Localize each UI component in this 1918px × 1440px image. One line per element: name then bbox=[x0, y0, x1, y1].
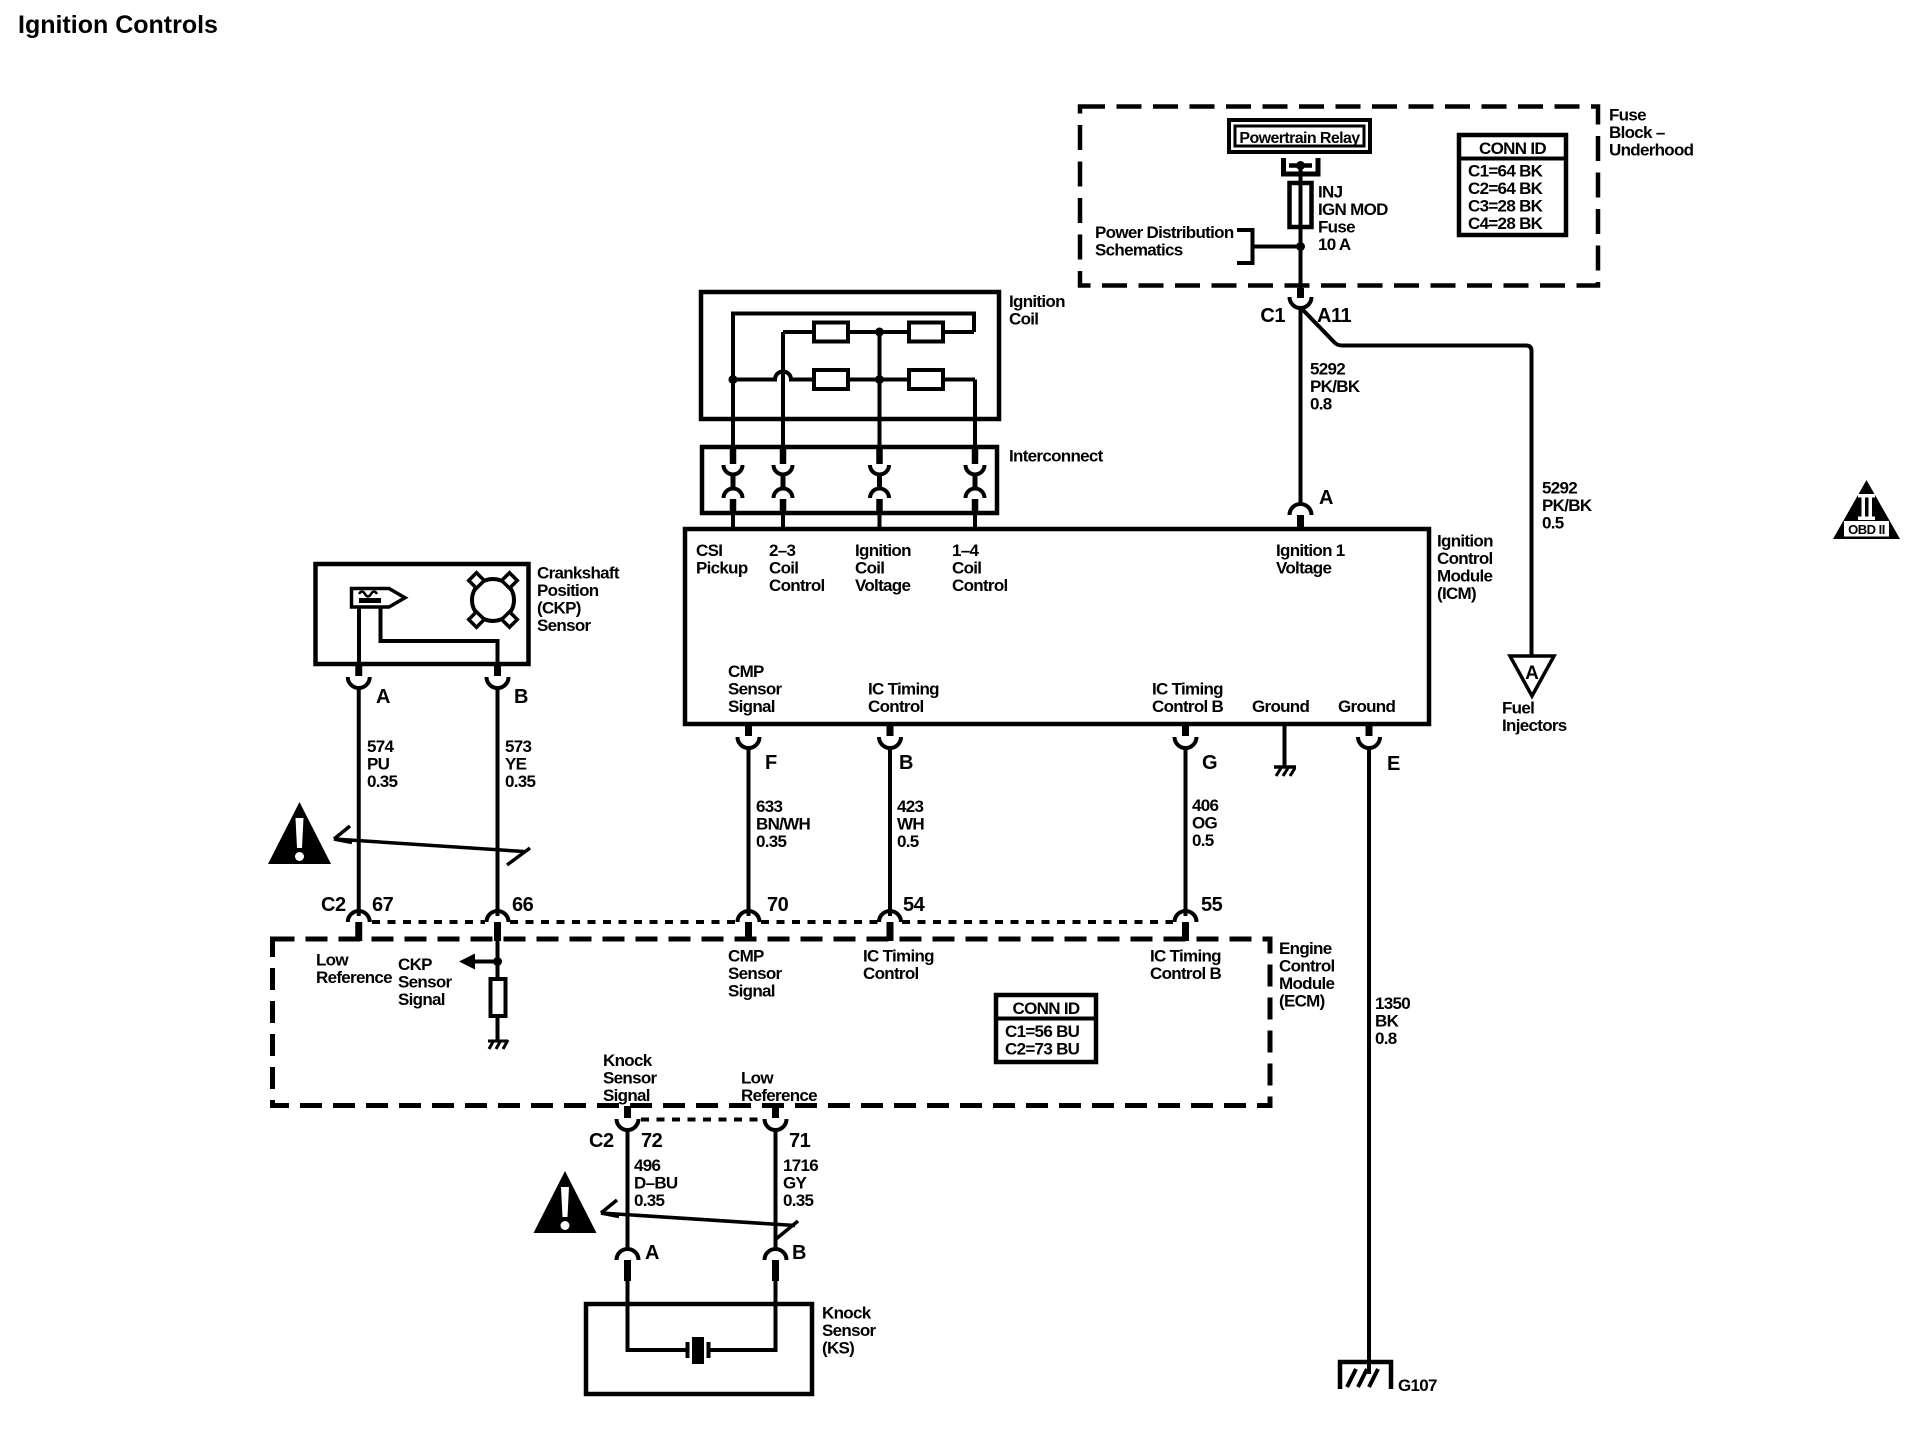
svg-text:2–3: 2–3 bbox=[769, 541, 796, 560]
svg-text:B: B bbox=[514, 686, 528, 708]
svg-text:(CKP): (CKP) bbox=[537, 599, 581, 618]
interconnect connector 2 bbox=[774, 447, 793, 513]
svg-text:IC Timing: IC Timing bbox=[1152, 680, 1223, 699]
label CMP Sensor Signal ECM bbox=[728, 947, 783, 1001]
svg-text:5292: 5292 bbox=[1542, 479, 1577, 498]
svg-text:A: A bbox=[376, 686, 390, 708]
wire B into knock sensor bbox=[711, 1281, 776, 1350]
connector 66 bbox=[487, 911, 509, 941]
label Crankshaft Position (CKP) Sensor bbox=[537, 564, 620, 636]
svg-text:0.35: 0.35 bbox=[783, 1191, 814, 1210]
label 573 YE 0.35 bbox=[505, 737, 536, 791]
svg-text:423: 423 bbox=[897, 797, 924, 816]
Powertrain Relay label box bbox=[1229, 120, 1370, 152]
connector 71 at ECM bottom bbox=[765, 1106, 787, 1130]
connector pin G at ICM bottom bbox=[1175, 724, 1197, 748]
svg-text:Knock: Knock bbox=[603, 1051, 653, 1070]
svg-text:0.35: 0.35 bbox=[505, 772, 536, 791]
coil resistor primary 2 bbox=[909, 323, 943, 342]
svg-text:IC Timing: IC Timing bbox=[868, 680, 939, 699]
ground G107 symbol bbox=[1340, 1362, 1391, 1389]
svg-text:Module: Module bbox=[1437, 567, 1493, 586]
ICM chassis ground symbol bbox=[1274, 767, 1296, 776]
svg-text:YE: YE bbox=[505, 755, 527, 774]
label 1350 BK 0.8 bbox=[1375, 994, 1410, 1048]
interconnect connector 4 bbox=[966, 447, 985, 513]
wire fuse down through box bbox=[1299, 227, 1303, 288]
pin labels CMP Sensor Signal bbox=[728, 662, 783, 716]
knock sensor box bbox=[586, 1304, 812, 1394]
svg-text:Voltage: Voltage bbox=[1276, 559, 1331, 578]
svg-text:633: 633 bbox=[756, 797, 783, 816]
fuse INJ IGN MOD 10A bbox=[1290, 183, 1312, 227]
wire 633 BN/WH F to 70 bbox=[747, 748, 751, 916]
svg-text:Ground: Ground bbox=[1252, 697, 1309, 716]
pin labels Ignition Coil Voltage bbox=[855, 541, 911, 595]
resistor ECM pullup bbox=[491, 979, 506, 1016]
twisted pair indicator 2 bbox=[601, 1200, 798, 1239]
svg-text:1–4: 1–4 bbox=[952, 541, 980, 560]
svg-text:(ICM): (ICM) bbox=[1437, 584, 1476, 603]
label 5292 PK/BK 0.8 bbox=[1310, 360, 1361, 414]
svg-text:Pickup: Pickup bbox=[696, 559, 748, 578]
svg-text:0.5: 0.5 bbox=[1542, 514, 1564, 533]
coil internal top bus wire bbox=[733, 314, 974, 448]
interconnect connector 3 bbox=[870, 447, 889, 513]
svg-text:CMP: CMP bbox=[728, 947, 764, 966]
svg-text:F: F bbox=[765, 752, 777, 774]
svg-text:(ECM): (ECM) bbox=[1279, 992, 1325, 1011]
label Low Reference ECM knock bbox=[741, 1069, 817, 1106]
wire relay to fuse bbox=[1299, 166, 1303, 184]
label Knock Sensor Signal ECM bbox=[603, 1051, 658, 1105]
svg-text:574: 574 bbox=[367, 737, 395, 756]
svg-text:Knock: Knock bbox=[822, 1304, 872, 1323]
wire 496 D-BU bbox=[626, 1130, 630, 1250]
svg-text:A11: A11 bbox=[1317, 305, 1351, 327]
relay K contact symbol bbox=[1284, 158, 1319, 174]
svg-text:54: 54 bbox=[903, 894, 926, 916]
svg-text:Sensor: Sensor bbox=[728, 680, 783, 699]
svg-text:C1=64 BK: C1=64 BK bbox=[1468, 162, 1544, 181]
svg-text:Sensor: Sensor bbox=[398, 973, 453, 992]
label Power Distribution Schematics bbox=[1095, 223, 1234, 260]
wire resistor to ground bbox=[496, 1016, 500, 1040]
svg-text:Injectors: Injectors bbox=[1502, 716, 1567, 735]
connector pin A knock bbox=[617, 1249, 639, 1281]
svg-text:573: 573 bbox=[505, 737, 532, 756]
coil wire drop 3 bbox=[878, 332, 882, 447]
svg-text:Ignition: Ignition bbox=[855, 541, 911, 560]
svg-text:Coil: Coil bbox=[769, 559, 798, 578]
connector 70 bbox=[738, 911, 760, 941]
svg-text:Control B: Control B bbox=[1150, 964, 1222, 983]
svg-text:Block –: Block – bbox=[1609, 123, 1665, 142]
svg-text:Fuse: Fuse bbox=[1609, 106, 1646, 125]
svg-text:Sensor: Sensor bbox=[728, 964, 783, 983]
interconnect box bbox=[702, 447, 997, 513]
connector 54 bbox=[879, 911, 901, 941]
dotted line between 72 and 71 bbox=[641, 1118, 762, 1122]
coil internal row1 wire bbox=[783, 330, 974, 334]
label Engine Control Module (ECM) bbox=[1279, 939, 1335, 1011]
svg-text:Ignition: Ignition bbox=[1437, 532, 1493, 551]
svg-text:PU: PU bbox=[367, 755, 390, 774]
label 574 PU 0.35 bbox=[367, 737, 398, 791]
label 423 WH 0.5 bbox=[897, 797, 924, 851]
fuel injectors triangle bbox=[1510, 656, 1554, 696]
svg-text:Interconnect: Interconnect bbox=[1009, 447, 1104, 466]
wires interconnect to ICM bbox=[733, 513, 975, 529]
fuse block underhood dashed box bbox=[1080, 107, 1598, 286]
wire bracket to node bbox=[1253, 245, 1301, 249]
svg-text:E: E bbox=[1387, 753, 1400, 775]
svg-text:A: A bbox=[1525, 663, 1539, 684]
coil wire drop 2 bbox=[781, 332, 785, 447]
svg-text:5292: 5292 bbox=[1310, 360, 1345, 379]
svg-text:Fuel: Fuel bbox=[1502, 699, 1534, 718]
connector 72 at ECM bottom bbox=[617, 1106, 639, 1130]
svg-text:IC Timing: IC Timing bbox=[1150, 947, 1221, 966]
piezo element symbol bbox=[688, 1337, 709, 1364]
svg-text:Control: Control bbox=[1279, 957, 1335, 976]
OBD II icon bbox=[1833, 480, 1900, 539]
connector row dotted line C2 bbox=[372, 920, 1173, 924]
svg-text:67: 67 bbox=[372, 894, 394, 916]
CONN ID table underhood bbox=[1459, 135, 1566, 235]
svg-text:0.5: 0.5 bbox=[897, 832, 919, 851]
svg-text:C2=64 BK: C2=64 BK bbox=[1468, 179, 1544, 198]
junction node CKP signal bbox=[493, 957, 502, 966]
connector 55 bbox=[1175, 911, 1197, 941]
svg-text:C1=56 BU: C1=56 BU bbox=[1005, 1022, 1080, 1041]
svg-text:Module: Module bbox=[1279, 974, 1335, 993]
svg-text:55: 55 bbox=[1201, 894, 1223, 916]
svg-text:C3=28 BK: C3=28 BK bbox=[1468, 197, 1544, 216]
svg-text:G: G bbox=[1202, 752, 1217, 774]
CKP reluctor wheel symbol bbox=[469, 573, 518, 628]
CONN ID table ECM bbox=[996, 995, 1096, 1062]
svg-text:0.35: 0.35 bbox=[367, 772, 398, 791]
svg-text:CMP: CMP bbox=[728, 662, 764, 681]
label Low Reference ECM bbox=[316, 951, 392, 988]
svg-text:Sensor: Sensor bbox=[603, 1069, 658, 1088]
wire 66 into ECM bbox=[496, 941, 500, 979]
connector pin B knock bbox=[765, 1249, 787, 1281]
pin label Ignition 1 Voltage bbox=[1276, 541, 1345, 578]
svg-text:Powertrain Relay: Powertrain Relay bbox=[1239, 130, 1360, 147]
svg-text:Reference: Reference bbox=[316, 968, 392, 987]
label Ignition Control Module (ICM) bbox=[1437, 532, 1493, 604]
svg-text:CONN ID: CONN ID bbox=[1013, 999, 1080, 1018]
label CKP Sensor Signal ECM bbox=[398, 955, 453, 1009]
svg-text:BN/WH: BN/WH bbox=[756, 815, 811, 834]
svg-text:Ground: Ground bbox=[1338, 697, 1395, 716]
svg-text:Control: Control bbox=[1437, 549, 1493, 568]
svg-text:C1: C1 bbox=[1260, 305, 1285, 327]
svg-text:A: A bbox=[1319, 487, 1333, 509]
interconnect connector 1 bbox=[724, 447, 743, 513]
svg-text:72: 72 bbox=[641, 1130, 663, 1152]
svg-text:WH: WH bbox=[897, 815, 924, 834]
svg-text:Underhood: Underhood bbox=[1609, 141, 1694, 160]
wire 1350 BK E to G107 bbox=[1367, 748, 1371, 1374]
svg-text:CSI: CSI bbox=[696, 541, 722, 560]
svg-text:66: 66 bbox=[512, 894, 534, 916]
svg-text:Ignition: Ignition bbox=[1009, 292, 1065, 311]
svg-text:Coil: Coil bbox=[855, 559, 884, 578]
svg-text:B: B bbox=[899, 752, 913, 774]
wire 406 OG G to 55 bbox=[1184, 748, 1188, 916]
svg-text:Coil: Coil bbox=[1009, 310, 1038, 329]
coil wire drop 4 bbox=[973, 380, 977, 448]
wire 423 WH B to 54 bbox=[888, 748, 892, 916]
svg-text:G107: G107 bbox=[1398, 1376, 1437, 1395]
ICM box Ignition Control Module bbox=[685, 529, 1429, 724]
svg-text:1716: 1716 bbox=[783, 1156, 818, 1175]
svg-text:OG: OG bbox=[1192, 814, 1218, 833]
ignition coil box bbox=[701, 292, 999, 419]
svg-text:70: 70 bbox=[767, 894, 789, 916]
label 5292 PK/BK 0.5 bbox=[1542, 479, 1593, 533]
label 496 D-BU 0.35 bbox=[634, 1156, 678, 1210]
svg-text:PK/BK: PK/BK bbox=[1542, 496, 1593, 515]
svg-text:Low: Low bbox=[316, 951, 349, 970]
pin labels 2-3 Coil Control bbox=[769, 541, 825, 595]
svg-text:Low: Low bbox=[741, 1069, 774, 1088]
svg-text:BK: BK bbox=[1375, 1012, 1400, 1031]
svg-text:Schematics: Schematics bbox=[1095, 241, 1183, 260]
label Knock Sensor (KS) bbox=[822, 1304, 877, 1358]
svg-text:Crankshaft: Crankshaft bbox=[537, 564, 620, 583]
label Fuse Block - Underhood bbox=[1609, 106, 1694, 160]
pin labels 1-4 Coil Control bbox=[952, 541, 1008, 595]
wire 574 PU bbox=[357, 688, 361, 916]
coil resistor primary 1 bbox=[814, 323, 848, 342]
label Fuel Injectors bbox=[1502, 699, 1567, 736]
ECM internal ground symbol bbox=[488, 1040, 508, 1049]
svg-text:Coil: Coil bbox=[952, 559, 981, 578]
svg-text:71: 71 bbox=[789, 1130, 811, 1152]
svg-text:Power Distribution: Power Distribution bbox=[1095, 223, 1234, 242]
ECM dashed box Engine Control Module bbox=[273, 939, 1271, 1106]
svg-text:GY: GY bbox=[783, 1174, 808, 1193]
svg-text:D–BU: D–BU bbox=[634, 1174, 678, 1193]
svg-text:496: 496 bbox=[634, 1156, 661, 1175]
svg-text:Engine: Engine bbox=[1279, 939, 1332, 958]
svg-text:0.35: 0.35 bbox=[634, 1191, 665, 1210]
wire 573 YE bbox=[496, 688, 500, 916]
svg-text:0.5: 0.5 bbox=[1192, 831, 1214, 850]
svg-text:Control: Control bbox=[863, 964, 919, 983]
CKP sensor box bbox=[316, 564, 529, 664]
coil resistor secondary 1 bbox=[814, 370, 848, 389]
node row2 mid bbox=[875, 375, 884, 384]
svg-text:(KS): (KS) bbox=[822, 1339, 854, 1358]
svg-text:IC Timing: IC Timing bbox=[863, 947, 934, 966]
svg-text:Fuse: Fuse bbox=[1318, 218, 1355, 237]
svg-text:C2: C2 bbox=[321, 894, 346, 916]
svg-text:C2=73 BU: C2=73 BU bbox=[1005, 1040, 1080, 1059]
svg-text:Position: Position bbox=[537, 581, 599, 600]
pin labels IC Timing Control B bbox=[1152, 680, 1224, 717]
svg-text:CONN ID: CONN ID bbox=[1479, 139, 1546, 158]
wire branch to fuel injectors bbox=[1303, 310, 1532, 656]
svg-text:C4=28 BK: C4=28 BK bbox=[1468, 214, 1544, 233]
ICM ground pin wire bbox=[1283, 724, 1287, 766]
connector pin E at ICM bottom bbox=[1358, 724, 1380, 748]
connector C1 pin A11 bbox=[1290, 288, 1312, 308]
wire A into knock sensor bbox=[628, 1281, 686, 1350]
svg-text:0.35: 0.35 bbox=[756, 832, 787, 851]
connector A at ICM top bbox=[1290, 504, 1312, 529]
svg-text:Ignition 1: Ignition 1 bbox=[1276, 541, 1345, 560]
node row2 left bbox=[729, 375, 738, 384]
label INJ IGN MOD Fuse 10 A bbox=[1318, 183, 1388, 255]
wire 5292 PK/BK 0.8 bbox=[1299, 308, 1303, 505]
warning triangle 2 bbox=[534, 1171, 597, 1233]
CKP internal wires bbox=[359, 607, 498, 664]
svg-text:Control: Control bbox=[769, 576, 825, 595]
svg-text:OBD II: OBD II bbox=[1848, 522, 1885, 537]
connector 67 bbox=[348, 911, 370, 941]
svg-text:B: B bbox=[792, 1242, 806, 1264]
connector pin B CKP bbox=[487, 664, 509, 688]
svg-text:Sensor: Sensor bbox=[822, 1321, 877, 1340]
svg-text:A: A bbox=[645, 1242, 659, 1264]
label IC Timing Control B ECM bbox=[1150, 947, 1222, 984]
warning triangle 1 bbox=[268, 802, 331, 864]
svg-text:10 A: 10 A bbox=[1318, 235, 1351, 254]
svg-text:IGN MOD: IGN MOD bbox=[1318, 200, 1388, 219]
svg-text:INJ: INJ bbox=[1318, 183, 1343, 202]
svg-text:CKP: CKP bbox=[398, 955, 432, 974]
svg-text:Sensor: Sensor bbox=[537, 616, 592, 635]
power distribution bracket bbox=[1237, 230, 1253, 263]
node row1 bbox=[875, 328, 884, 337]
CKP signal arrow bbox=[459, 954, 498, 970]
twisted pair indicator 1 bbox=[334, 826, 530, 865]
svg-text:Signal: Signal bbox=[603, 1086, 650, 1105]
svg-text:1350: 1350 bbox=[1375, 994, 1410, 1013]
svg-text:0.8: 0.8 bbox=[1310, 395, 1332, 414]
label Ignition Coil bbox=[1009, 292, 1065, 329]
coil resistor secondary 2 bbox=[909, 370, 943, 389]
svg-text:Control: Control bbox=[868, 697, 924, 716]
svg-text:0.8: 0.8 bbox=[1375, 1029, 1397, 1048]
svg-text:Reference: Reference bbox=[741, 1086, 817, 1105]
label 633 BN/WH 0.35 bbox=[756, 797, 811, 851]
connector pin B at ICM bottom bbox=[879, 724, 901, 748]
svg-text:Control B: Control B bbox=[1152, 697, 1224, 716]
wire 1716 GY bbox=[774, 1130, 778, 1250]
svg-text:Signal: Signal bbox=[398, 990, 445, 1009]
label 406 OG 0.5 bbox=[1192, 796, 1219, 850]
svg-text:Signal: Signal bbox=[728, 982, 775, 1001]
junction node bbox=[1296, 242, 1305, 251]
pin labels IC Timing Control bbox=[868, 680, 939, 717]
svg-text:Ignition Controls: Ignition Controls bbox=[18, 11, 218, 39]
coil internal row2 wire with hop bbox=[733, 372, 975, 380]
svg-text:Voltage: Voltage bbox=[855, 576, 910, 595]
connector pin A CKP bbox=[348, 664, 370, 688]
svg-text:Control: Control bbox=[952, 576, 1008, 595]
label 1716 GY 0.35 bbox=[783, 1156, 818, 1210]
label IC Timing Control ECM bbox=[863, 947, 934, 984]
pin labels CSI Pickup bbox=[696, 541, 748, 578]
CKP pickup flag symbol bbox=[352, 589, 406, 608]
svg-text:C2: C2 bbox=[589, 1130, 614, 1152]
svg-text:PK/BK: PK/BK bbox=[1310, 377, 1361, 396]
svg-text:Signal: Signal bbox=[728, 697, 775, 716]
connector pin F at ICM bottom bbox=[738, 724, 760, 748]
svg-text:406: 406 bbox=[1192, 796, 1219, 815]
